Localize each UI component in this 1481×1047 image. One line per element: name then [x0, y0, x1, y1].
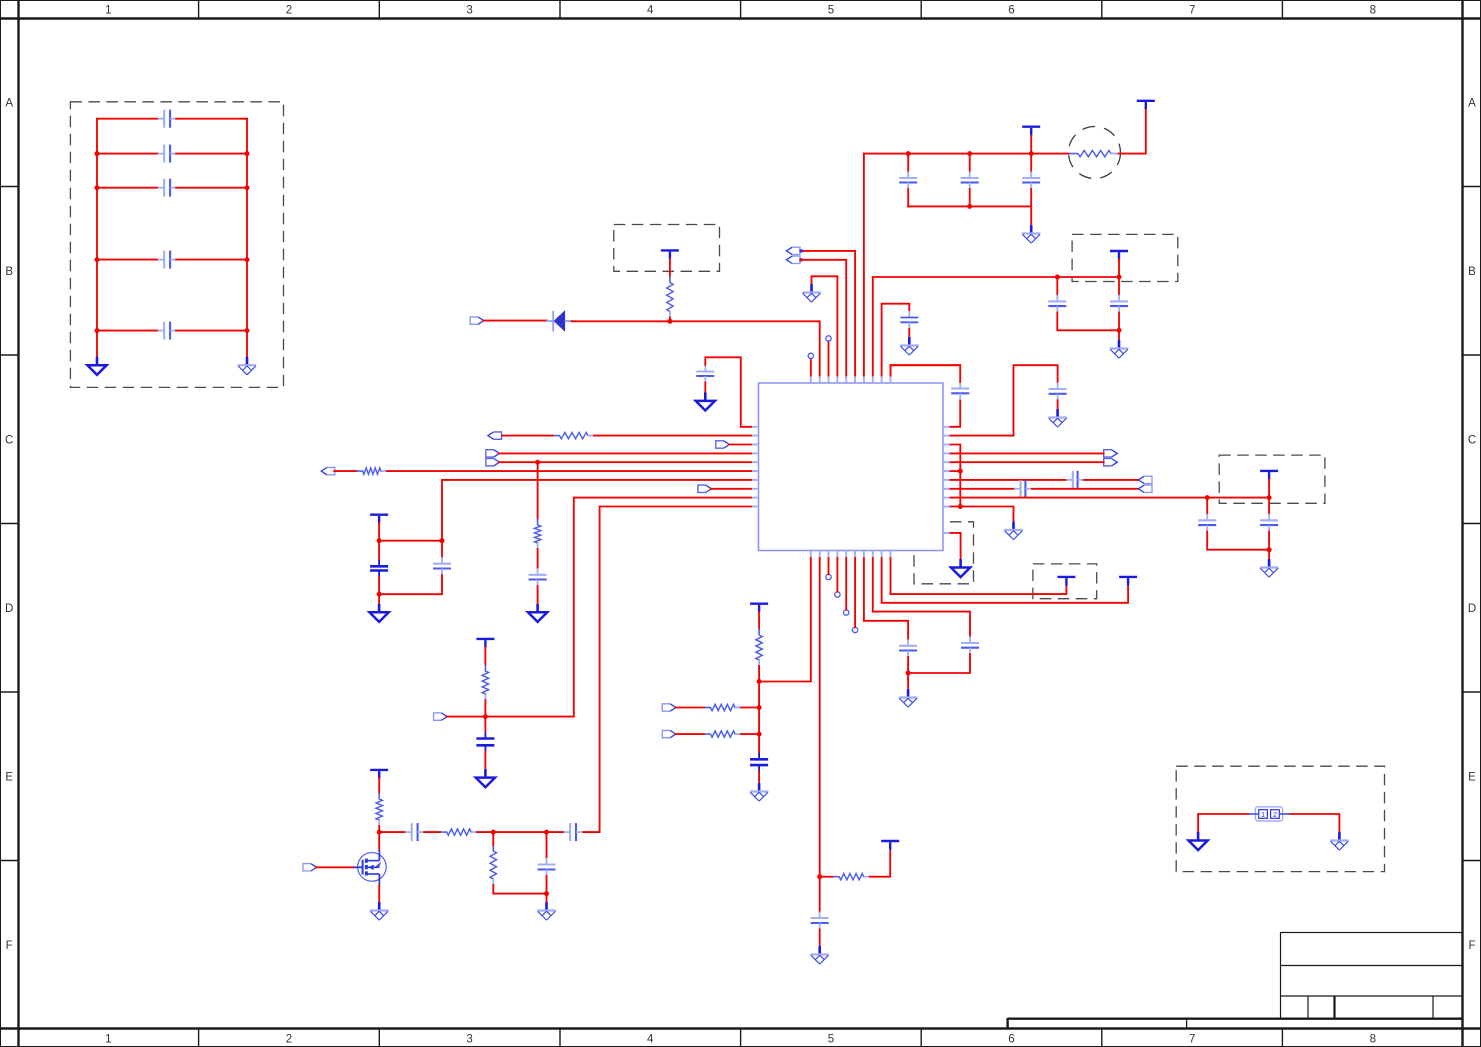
port CLK-IN — [786, 256, 802, 263]
capacitor C11 — [811, 912, 829, 930]
wire T8 route to AVDD — [873, 277, 1119, 376]
dashed box AVDD supply — [1072, 234, 1178, 281]
dashed box VDD supply — [614, 225, 720, 272]
svg-text:F: F — [6, 940, 13, 952]
svg-text:4: 4 — [647, 5, 654, 17]
wire pin B8 route — [873, 558, 970, 637]
svg-text:2: 2 — [286, 1034, 292, 1046]
wire C7 to ground — [537, 586, 539, 604]
wire pin B10 route — [891, 558, 1067, 594]
resistor R4 — [534, 519, 540, 549]
ground earth AVDD — [1110, 340, 1129, 358]
power port VDDIO in box — [1057, 577, 1075, 586]
power port VIO — [476, 639, 494, 648]
wire pin B1 route — [759, 558, 811, 682]
wire pin R5 to port — [951, 461, 1104, 463]
wire R1 to net — [669, 318, 671, 322]
U1 pins — [751, 376, 951, 559]
ground GND C8 — [476, 769, 495, 787]
ground GND C5 — [370, 604, 389, 622]
dashed box shield connector — [1176, 766, 1384, 871]
wire C14 top route — [891, 365, 961, 382]
capacitor C21 bulk — [158, 110, 177, 128]
wire bulk cap row 4 left — [97, 259, 158, 261]
wire pin R9 to VREF net — [951, 497, 1270, 499]
power port VIN — [1137, 101, 1155, 110]
power port AVDD — [1110, 251, 1128, 260]
capacitor C15 — [1049, 383, 1067, 401]
resistor R6 — [376, 793, 382, 826]
power port VDDA — [750, 604, 768, 613]
wire C10 to ground — [758, 772, 760, 784]
capacitor C13 — [961, 637, 979, 655]
junction rail C3 — [1029, 151, 1034, 156]
wire C11 to ground — [819, 930, 821, 947]
no-connect pin T3 — [826, 336, 831, 341]
wire left bulk rail — [96, 119, 98, 357]
junction left rail — [95, 151, 100, 156]
junction right rail — [245, 151, 250, 156]
wire pin R4 to port — [951, 452, 1104, 454]
ground earth filter — [537, 902, 556, 920]
wire C3 bottom — [1030, 189, 1032, 206]
transistor Q1 NMOS — [354, 853, 386, 882]
port AIN1 — [1138, 485, 1152, 492]
wire node to C8 — [484, 717, 486, 732]
port ADDR0 — [662, 704, 676, 711]
svg-text:1: 1 — [1261, 810, 1265, 819]
junction drain node — [377, 830, 382, 835]
wire R6 to drain node — [378, 826, 380, 832]
junction rail C2 — [967, 151, 972, 156]
ground earth Q1 source — [370, 902, 389, 920]
no-connect pin T1 — [808, 353, 813, 358]
wire C19 bottom route — [1207, 532, 1269, 550]
ground earth T4 — [802, 284, 821, 302]
svg-text:A: A — [1468, 97, 1476, 109]
dashed box VREF supply — [1219, 455, 1325, 503]
wire R4 to C7 — [537, 549, 539, 568]
ground GND C4 — [696, 392, 715, 410]
wire C16 to ground — [908, 329, 910, 337]
ground earth R10 — [1004, 522, 1023, 540]
wire C4 bottom to ground — [704, 383, 706, 393]
capacitor C27 — [564, 823, 583, 841]
svg-text:7: 7 — [1189, 1034, 1195, 1046]
junction left rail — [95, 185, 100, 190]
wire port to R2 — [502, 435, 553, 437]
wire T1 stub — [810, 359, 812, 376]
port EN — [321, 467, 335, 474]
svg-text:1: 1 — [105, 1034, 111, 1046]
wire pin B7 route — [864, 558, 908, 639]
junction VREF gnd node — [1267, 547, 1272, 552]
wire C8 to ground — [484, 752, 486, 769]
wire T10 route — [891, 365, 961, 375]
resistor R1 pullup — [667, 277, 673, 318]
junction vert R10row — [958, 504, 963, 509]
ferrite bead FB1 — [1070, 150, 1120, 156]
wire pin L7 to filter — [442, 480, 751, 541]
svg-text:8: 8 — [1370, 5, 1376, 17]
junction VDDA node — [757, 679, 762, 684]
junction AVDD C17 — [1055, 275, 1060, 280]
junction C6 top — [440, 538, 445, 543]
junction AVDD C18 — [1117, 275, 1122, 280]
junction SDA pullup — [535, 460, 540, 465]
wire decoupling ground bus — [908, 206, 1031, 225]
wire bulk cap row 2 left — [97, 153, 158, 155]
dashed box ground tie — [914, 522, 974, 584]
junction filter node A — [491, 830, 496, 835]
svg-text:2: 2 — [1273, 810, 1277, 819]
capacitor C18 — [1110, 295, 1128, 313]
wire R11 to node — [741, 707, 759, 709]
wire VLED stem — [378, 778, 380, 793]
wire pin R2 route — [951, 365, 1058, 435]
wire VREF gnd stub — [1268, 550, 1270, 560]
resistor R11 — [705, 704, 742, 710]
wire pullup chain top — [537, 462, 539, 519]
wire port to pin L8 — [711, 488, 751, 490]
dashed box bulk decoupling group — [70, 102, 283, 388]
junction rail C1 — [906, 151, 911, 156]
wire 3V3 port stem — [1030, 136, 1032, 154]
wire FB1 to supply riser — [1119, 110, 1146, 154]
op-amp U1 main IC body — [759, 383, 944, 551]
resistor R7 — [441, 829, 477, 835]
svg-text:6: 6 — [1008, 5, 1014, 17]
svg-text:3: 3 — [466, 1034, 472, 1046]
resistor R12 — [705, 731, 742, 737]
wire C1 bottom — [907, 189, 909, 206]
no-connect pin B6 — [852, 627, 857, 632]
wire C13 to node — [908, 654, 970, 673]
wire bulk cap row 5 right — [176, 330, 247, 332]
capacitor C7 — [529, 568, 547, 586]
svg-text:D: D — [5, 603, 13, 615]
wire C20 top stub — [1268, 498, 1270, 514]
ground earth C11 — [810, 946, 829, 964]
diode D1 — [546, 311, 573, 332]
wire R5 to node — [484, 700, 486, 717]
wire T9 route — [882, 304, 910, 376]
wire C29 to port — [1084, 479, 1138, 481]
ground earth bulk right — [238, 357, 257, 375]
port IRQ — [716, 441, 730, 448]
wire pin R3 to vert — [951, 445, 961, 507]
wire gnd node stub — [378, 594, 380, 604]
wire port to pin L3 — [729, 444, 751, 446]
port CS — [434, 713, 448, 720]
wire VREF stem — [1268, 479, 1270, 498]
resistor R9 — [756, 629, 762, 666]
capacitor C26 — [405, 823, 424, 841]
ground earth C12C13 — [899, 689, 918, 707]
capacitor C10 — [750, 753, 768, 772]
wire main 3V3 rail — [864, 153, 1070, 155]
wire bulk cap row 5 left — [97, 330, 158, 332]
wire J1 pin1 to ground — [1198, 814, 1248, 832]
svg-text:B: B — [5, 266, 13, 278]
wire CS port to node — [447, 716, 486, 718]
capacitor C25 bulk — [158, 322, 177, 340]
junction vert R6row — [958, 469, 963, 474]
no-connect pin B5 — [844, 610, 849, 615]
svg-text:C: C — [1468, 434, 1476, 446]
Q1 drain stub — [378, 850, 380, 853]
wire pin R10 route — [951, 507, 1014, 522]
wire R10 to VOSC — [870, 849, 891, 877]
wire bottom rail to ground — [546, 894, 548, 903]
wire J1 pin2 to earth — [1290, 814, 1339, 832]
wire C6 top stub — [441, 541, 443, 558]
ground GND R4C7 — [528, 604, 547, 622]
wire bulk cap row 3 left — [97, 187, 158, 189]
power port VOSC — [881, 841, 899, 850]
capacitor C14 — [951, 382, 969, 400]
wire T5 route — [801, 251, 856, 376]
svg-text:B: B — [1468, 266, 1476, 278]
capacitor C6 — [433, 557, 451, 575]
wire pin R1 up — [951, 400, 961, 427]
port AIN0 — [1138, 476, 1152, 483]
wire right bulk rail — [246, 119, 248, 357]
svg-text:5: 5 — [828, 1034, 834, 1046]
capacitor C9 — [538, 858, 556, 876]
no-connect pin B4 — [835, 592, 840, 597]
svg-text:5: 5 — [828, 5, 834, 17]
junction right rail — [245, 328, 250, 333]
wire C17 top stub — [1056, 277, 1058, 295]
port RX — [1104, 459, 1118, 466]
port MODE0 — [488, 432, 502, 439]
port LED-CTL — [303, 864, 317, 871]
wire T6 route — [801, 260, 847, 376]
power port VDD in box — [661, 250, 679, 259]
capacitor C8 — [476, 732, 494, 752]
svg-text:2: 2 — [286, 5, 292, 17]
svg-text:C: C — [5, 434, 13, 446]
wire AVDD stem — [1118, 259, 1120, 277]
wire pin L9 route down — [485, 498, 751, 717]
port SDA — [486, 459, 500, 466]
junction ground bus C2 — [967, 204, 972, 209]
ground GND bulk left — [87, 357, 106, 375]
wire source to ground — [378, 886, 380, 903]
wire pin R11 route — [951, 533, 961, 559]
title block — [1008, 933, 1463, 1030]
junction CS node — [483, 714, 488, 719]
wire VDDA stem — [758, 612, 760, 629]
capacitor C28 — [1014, 480, 1032, 498]
wire node B to C9 — [546, 832, 548, 858]
capacitor C1 — [899, 172, 917, 190]
wire pin R7 to C29 — [951, 479, 1067, 481]
wire port to R3 — [334, 470, 357, 472]
wire port to pin L4 — [499, 452, 751, 454]
port TX — [1104, 450, 1118, 457]
junction AVDD gnd node — [1117, 328, 1122, 333]
wire pin R6 stub — [951, 470, 961, 472]
wire node A to R8 — [492, 832, 494, 845]
capacitor C22 bulk — [158, 145, 177, 163]
wire C18 bottom — [1118, 313, 1120, 331]
wire bulk cap row 1 left — [97, 118, 158, 120]
wire VBAT stem — [378, 523, 380, 541]
port RESET-IN — [470, 317, 484, 324]
resistor R2 — [554, 432, 595, 438]
capacitor C4 — [696, 365, 714, 383]
junction gnd node — [377, 592, 382, 597]
wire T4 route — [812, 276, 838, 375]
wire C3 top stub — [1030, 154, 1032, 172]
thermistor FB1 dashed highlight circle — [1069, 127, 1121, 179]
wire C28 to port — [1032, 488, 1139, 490]
wire pin B2 long route — [819, 558, 821, 912]
wire R7 to node — [477, 831, 493, 833]
junction left rail — [95, 257, 100, 262]
svg-text:A: A — [5, 97, 13, 109]
ground E1 decoupling — [1022, 225, 1041, 243]
junction right rail — [245, 185, 250, 190]
wire C2 bottom — [969, 189, 971, 206]
wire C12 to node — [907, 657, 909, 673]
wire B3 stub — [828, 558, 830, 574]
wire pin L10 route down — [583, 507, 752, 833]
wire C26 to R7 — [424, 831, 441, 833]
wire bulk cap row 2 right — [176, 153, 247, 155]
junction OSC node — [817, 874, 822, 879]
wire B4 stub — [836, 558, 838, 592]
ground earth VREF — [1260, 559, 1279, 577]
svg-text:1: 1 — [105, 5, 111, 17]
ground earth C15 — [1048, 409, 1067, 427]
svg-text:3: 3 — [466, 5, 472, 17]
capacitor C24 bulk — [158, 251, 177, 269]
Q1 source stub — [378, 881, 380, 886]
wire T3 stub — [828, 341, 830, 375]
ground earth C16 — [900, 337, 919, 355]
wire B5 stub — [845, 558, 847, 610]
junction VBAT node — [377, 538, 382, 543]
wire C2 top stub — [969, 154, 971, 172]
capacitor C29 — [1066, 471, 1084, 489]
junction VREF C20 — [1267, 495, 1272, 500]
wire B6 stub — [854, 558, 856, 627]
port SCL — [486, 450, 500, 457]
no-connect pin B3 — [826, 574, 831, 579]
wire R3 to pin L6 — [387, 470, 751, 472]
power port VBAT — [370, 515, 388, 524]
power port 3V3 on rail — [1022, 127, 1040, 136]
wire R2 to pin L2 — [594, 435, 751, 437]
junction C12 C13 node — [906, 671, 911, 676]
capacitor C3 — [1022, 172, 1040, 190]
wire AVDD gnd stub — [1118, 330, 1120, 340]
svg-text:4: 4 — [647, 1034, 654, 1046]
wire C9 to bottom rail — [546, 876, 548, 894]
wire R12 to node — [741, 733, 759, 735]
wire C5 to gnd node — [378, 577, 380, 594]
junction VREF C19 — [1205, 495, 1210, 500]
wire gate — [316, 866, 354, 868]
power port VLED — [370, 770, 388, 779]
svg-text:D: D — [1468, 603, 1476, 615]
wire OSC node to R10 — [820, 876, 834, 878]
dashed box VDDIO supply — [1033, 564, 1097, 599]
wire VDDA node down — [758, 682, 760, 753]
wire node A to node B — [493, 831, 546, 833]
svg-text:E: E — [1468, 771, 1476, 783]
ground earth J1 — [1330, 832, 1349, 850]
junction addr node 2 — [757, 732, 762, 737]
wire pin B9 route — [882, 558, 1129, 603]
wire R8 to bottom rail — [493, 885, 546, 894]
svg-text:6: 6 — [1008, 1034, 1014, 1046]
wire VBAT node to C5 — [378, 541, 380, 560]
wire VBAT node to C6 node — [379, 540, 442, 542]
capacitor C20 — [1260, 514, 1278, 532]
svg-text:7: 7 — [1189, 5, 1195, 17]
wire C19 top stub — [1206, 498, 1208, 514]
wire ADDR0 to R11 — [675, 707, 704, 709]
ground GND J1 — [1189, 832, 1208, 850]
wire node to ground — [907, 673, 909, 689]
wire C18 top stub — [1118, 277, 1120, 295]
power port VDDIO2 — [1119, 577, 1137, 586]
junction left rail — [95, 328, 100, 333]
wire C1 top stub — [907, 154, 909, 172]
wire drain node to C26 — [379, 831, 405, 833]
wire C17 bottom route — [1057, 313, 1119, 331]
capacitor C12 — [899, 639, 917, 657]
resistor R3 — [357, 468, 387, 474]
resistor R8 — [490, 845, 496, 885]
wire D1 cathode to reset pin — [572, 321, 820, 375]
wire T7 supply riser — [863, 154, 865, 376]
wire C4 top route to pin L1 — [705, 357, 751, 427]
capacitor C17 — [1048, 295, 1066, 313]
resistor R10 — [833, 874, 870, 880]
power port VREF — [1260, 471, 1278, 480]
wire bulk cap row 4 right — [176, 259, 247, 261]
wire C20 bottom — [1268, 532, 1270, 550]
wire node B to C27 — [547, 831, 564, 833]
wire C6 bottom — [379, 575, 442, 594]
capacitor C16 — [900, 311, 918, 329]
capacitor C23 bulk — [158, 179, 177, 197]
wire R9 to node — [758, 666, 760, 682]
capacitor C2 — [961, 172, 979, 190]
resistor R5 — [482, 665, 488, 700]
svg-text:F: F — [1468, 940, 1475, 952]
capacitor C5 — [370, 560, 388, 577]
port ADDR1 — [662, 730, 676, 737]
wire C15 to ground — [1057, 400, 1059, 409]
wire bulk cap row 1 right — [176, 118, 247, 120]
port INT2 — [698, 485, 712, 492]
wire VIO stem — [484, 647, 486, 665]
wire port to pin L5 — [499, 461, 751, 463]
wire drain — [378, 832, 380, 850]
wire pin R8 to C28 — [951, 488, 1015, 490]
port DATA-IN — [786, 247, 802, 254]
junction bottom rail — [544, 891, 549, 896]
ground earth C10 — [750, 783, 769, 801]
ground GND exposed pad — [951, 559, 970, 577]
svg-text:E: E — [5, 771, 13, 783]
